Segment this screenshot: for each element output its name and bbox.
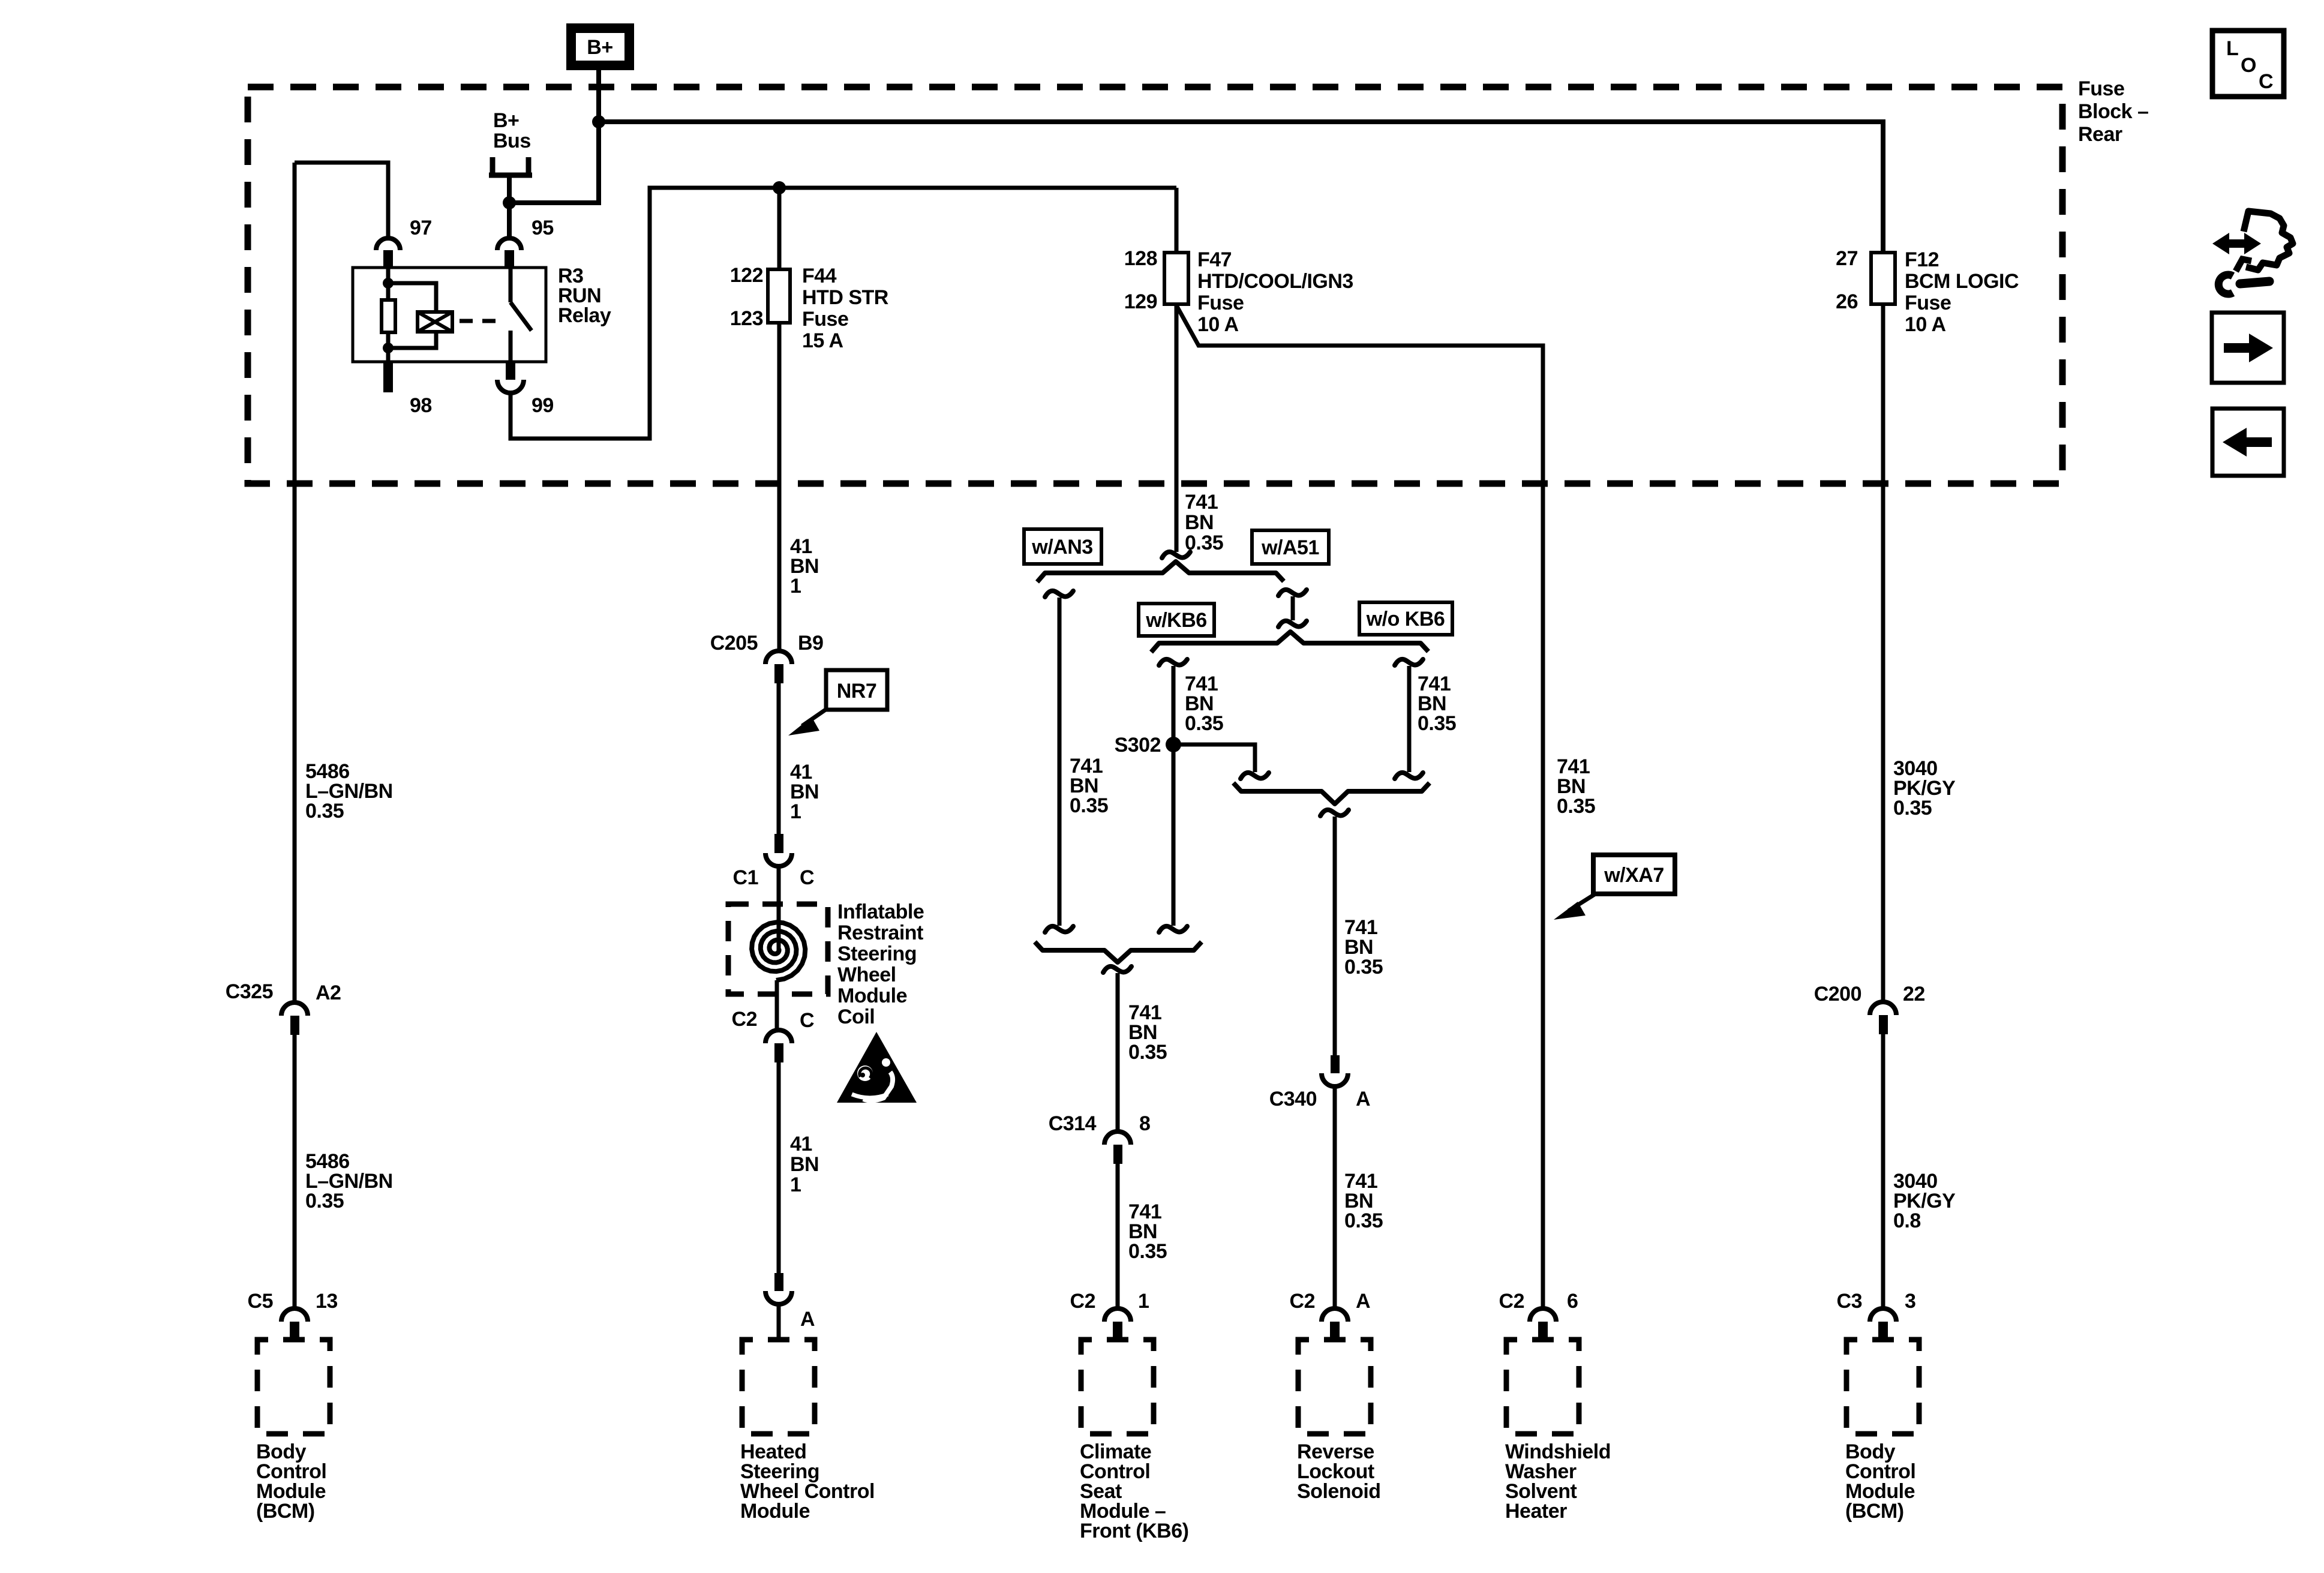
svg-text:0.35: 0.35 [1418,712,1456,735]
svg-text:0.35: 0.35 [1128,1041,1167,1064]
wire label 741 BN 0.35 (above C314) [1128,1001,1167,1064]
svg-text:C2: C2 [1290,1290,1315,1313]
splice mark end of F47 wire [1162,552,1190,558]
dashed actuation link coil to switch [460,319,503,323]
relay switch contact [511,268,532,362]
wire label 5486 L-GN/BN 0.35 (below C325) [305,1150,393,1212]
wire label 41 BN 1 (below NR7) [790,761,819,823]
splice mark bottom of w/AN3 branch [1045,926,1073,932]
icon wrench and arrow (service info) [2212,211,2293,294]
wire label 741 BN 0.35 (w/KB6 branch) [1185,673,1223,735]
resistor in relay [382,300,395,332]
svg-text:NR7: NR7 [837,680,877,703]
wire relay 97 feed (up and left to BCM column) [295,163,388,237]
svg-text:99: 99 [532,394,554,417]
connector C5 pin 13 at left BCM [248,1290,338,1341]
leader arrow w/XA7 to wire [1554,893,1596,920]
svg-text:C205: C205 [710,632,758,655]
svg-text:BN: BN [1185,511,1214,534]
svg-text:BN: BN [790,1153,819,1176]
svg-text:22: 22 [1903,983,1925,1005]
fuse block dashed border [248,87,2062,484]
svg-text:O: O [2241,54,2256,77]
wire label 741 BN 0.35 (w/AN3 branch) [1070,755,1108,817]
inflatable restraint steering wheel module coil dashed box [728,904,828,994]
wire F47 input [1175,188,1179,253]
connector C325 pin A2 [226,980,341,1035]
splice mark top of w/o KB6 branch [1395,659,1423,665]
relay coil (box with X) [418,312,452,332]
wire label 741 BN 0.35 (washer heater feed) [1557,755,1595,818]
svg-text:Coil: Coil [837,1005,875,1028]
option box w/A51 [1252,530,1329,564]
leader arrow NR7 to wire [788,709,827,736]
connector C2 pin 6 at washer solvent heater [1499,1290,1578,1341]
splice mark bottom of w/o KB6 branch [1395,773,1423,779]
svg-text:B+: B+ [493,109,519,132]
svg-text:6: 6 [1567,1290,1578,1313]
svg-text:BCM LOGIC: BCM LOGIC [1905,270,2019,293]
svg-text:C325: C325 [226,980,273,1003]
connector C205 pin B9 [710,632,824,683]
connector C200 pin 22 [1814,983,1925,1034]
module Body Control Module (BCM) right [1845,1340,1919,1523]
svg-text:C200: C200 [1814,983,1861,1005]
svg-text:0.35: 0.35 [1070,794,1108,817]
svg-text:95: 95 [532,217,554,239]
fuse F12 BCM LOGIC 10A [1836,247,2019,336]
svg-text:Wheel: Wheel [837,963,896,986]
wire B+ feed down from B+ box [509,70,599,203]
svg-text:10 A: 10 A [1197,313,1239,336]
svg-text:HTD/COOL/IGN3: HTD/COOL/IGN3 [1197,270,1353,293]
pin 95 terminal of relay [497,217,554,268]
node junction on B+ feed [592,115,605,128]
wire w/A51 stub [1291,596,1295,620]
icon right arrow box [2212,313,2284,383]
svg-text:A: A [1356,1290,1370,1313]
icon LOC legend box [2212,31,2284,97]
wire w/o KB6 branch down [1407,666,1412,772]
svg-text:C: C [800,866,814,889]
svg-text:w/XA7: w/XA7 [1604,864,1664,887]
connector C340 pin A [1269,1055,1370,1110]
svg-text:Relay: Relay [558,304,611,327]
pin 97 terminal of relay [376,217,432,268]
svg-text:122: 122 [730,264,763,287]
svg-text:Fuse: Fuse [802,308,848,331]
svg-text:Bus: Bus [493,130,531,152]
svg-text:C5: C5 [248,1290,273,1313]
wire label 3040 PK/GY 0.35 (above C200) [1893,757,1956,819]
connector C2 pin 1 at climate seat module [1070,1290,1149,1341]
wire C1 into coil module [777,866,781,950]
svg-text:Block –: Block – [2078,100,2148,123]
svg-text:A: A [800,1308,815,1331]
node coil top [383,278,394,289]
wire F47 output down [1175,304,1179,552]
svg-text:0.35: 0.35 [305,800,344,822]
svg-text:Restraint: Restraint [837,921,923,944]
pin 99 terminal of relay [497,361,554,417]
splice mark top of reverse lockout feed [1320,810,1349,816]
wire bus junction down to relay terminal 95 [507,203,512,237]
module Body Control Module (BCM) left [256,1340,330,1523]
brace merge to climate seat module feed [1035,942,1202,962]
relay coil branch wiring [388,268,436,362]
svg-text:C340: C340 [1269,1088,1317,1110]
wire C325 to C5 [293,1035,297,1307]
wire relay 99 output to fuses feed [511,188,1176,439]
label Fuse Block - Rear [2078,77,2148,146]
connector C3 pin 3 at right BCM [1837,1290,1916,1341]
svg-text:HTD STR: HTD STR [802,286,888,309]
splice mark top of w/KB6 branch [1159,659,1187,665]
wire C205 to C1 [777,683,781,834]
wire S302 branch right [1173,745,1255,772]
svg-text:8: 8 [1139,1112,1150,1135]
svg-text:Heater: Heater [1505,1500,1567,1523]
svg-text:13: 13 [316,1290,338,1313]
brace split w/AN3 vs w/A51 [1037,562,1284,582]
svg-text:w/AN3: w/AN3 [1031,536,1092,559]
module Reverse Lockout Solenoid [1297,1340,1381,1503]
wire reverse lockout feed down to C340 [1333,816,1337,1055]
wire label 741 BN 0.35 (below C314) [1128,1200,1167,1263]
svg-text:w/A51: w/A51 [1261,536,1319,559]
svg-text:(BCM): (BCM) [256,1500,315,1523]
option box w/o KB6 [1359,602,1452,635]
splice mark bottom of w/A51 stub [1278,621,1307,627]
label Inflatable Restraint Steering Wheel Module Coil [837,900,924,1028]
wire F47 branch to washer heater column [1176,305,1543,1308]
node splice S302 [1115,734,1181,757]
svg-text:Steering: Steering [837,942,917,965]
wire label 41 BN 1 (above C205) [790,535,819,598]
icon airbag warning triangle [837,1032,917,1103]
svg-text:0.35: 0.35 [1893,797,1932,819]
svg-text:123: 123 [730,307,763,330]
wire C200 to C3 [1881,1034,1885,1307]
wire label 741 BN 0.35 (w/o KB6 branch) [1418,673,1456,735]
svg-text:0.8: 0.8 [1893,1209,1921,1232]
svg-text:C3: C3 [1837,1290,1862,1313]
option box w/XA7 [1593,855,1675,894]
connector pin A at heated steering wheel module [765,1273,815,1340]
svg-text:129: 129 [1124,290,1157,313]
pin 98 stub terminal [383,361,432,417]
svg-text:A: A [1356,1088,1370,1110]
svg-text:C2: C2 [1499,1290,1524,1313]
module Climate Control Seat Module Front (KB6) [1080,1340,1188,1542]
option box w/AN3 [1024,529,1101,564]
wire climate feed down to C314 [1116,973,1120,1131]
svg-text:Solenoid: Solenoid [1297,1480,1381,1503]
wire C340 to C2 reverse [1333,1086,1337,1307]
svg-text:0.35: 0.35 [1128,1240,1167,1263]
svg-text:B+: B+ [587,36,612,59]
splice mark top of w/AN3 branch [1045,591,1073,597]
power symbol B+ [571,28,629,65]
wire label 741 BN 0.35 (F47 output) [1185,491,1223,554]
splice mark top of w/A51 stub [1278,590,1307,596]
wire label 741 BN 0.35 (below C340) [1344,1170,1383,1232]
splice mark bottom of S302 branch [1241,773,1269,779]
svg-text:0.35: 0.35 [1344,1209,1383,1232]
svg-text:B9: B9 [798,632,823,655]
svg-text:1: 1 [790,575,801,598]
svg-text:0.35: 0.35 [305,1190,344,1212]
wire label 41 BN 1 (above heated module) [790,1133,819,1196]
wire F44 output down [777,323,782,651]
bus bar B+ Bus symbol [489,109,532,203]
wire label 741 BN 0.35 (above C340) [1344,916,1383,978]
svg-text:98: 98 [410,394,432,417]
relay R3 RUN Relay [353,265,611,362]
svg-text:S302: S302 [1115,734,1161,757]
svg-text:A2: A2 [316,981,341,1004]
brace split w/KB6 vs w/o KB6 [1151,632,1428,652]
svg-text:F47: F47 [1197,248,1232,271]
svg-text:Fuse: Fuse [1905,292,1951,314]
option box NR7 [826,670,887,710]
svg-text:C: C [800,1009,814,1032]
connector C314 pin 8 [1049,1112,1151,1164]
svg-text:26: 26 [1836,290,1858,313]
svg-text:C1: C1 [733,866,758,889]
svg-text:0.35: 0.35 [1344,956,1383,978]
svg-text:Module: Module [740,1500,810,1523]
svg-text:F44: F44 [802,265,837,287]
splice mark top of climate feed [1103,966,1131,972]
svg-text:C314: C314 [1049,1112,1097,1135]
splice mark bottom of w/KB6 branch [1159,926,1187,932]
svg-text:0.35: 0.35 [1557,795,1595,818]
node coil bottom [383,343,394,353]
coil spiral symbol [752,922,805,980]
svg-text:10 A: 10 A [1905,313,1946,336]
node junction at F44 branch [773,181,786,194]
svg-text:41: 41 [790,1133,812,1155]
svg-text:L: L [2226,37,2238,60]
svg-text:F12: F12 [1905,248,1939,271]
wire label 5486 L-GN/BN 0.35 (above C325) [305,760,393,822]
svg-text:C2: C2 [732,1008,757,1031]
svg-text:0.35: 0.35 [1185,712,1223,735]
svg-text:(BCM): (BCM) [1845,1500,1904,1523]
connector C1 pin C (coil input) [733,834,815,889]
svg-text:Module: Module [837,984,907,1007]
connector C2 pin C (coil output) [732,1008,815,1062]
svg-text:1: 1 [1138,1290,1149,1313]
svg-text:Fuse: Fuse [1197,292,1244,314]
wire F44 input [777,188,782,269]
module Heated Steering Wheel Control Module [740,1340,875,1523]
fuse F47 HTD/COOL/IGN3 10A [1124,247,1353,336]
svg-text:1: 1 [790,800,801,823]
wire left BCM column down [293,163,297,1002]
svg-text:1: 1 [790,1173,801,1196]
svg-text:Rear: Rear [2078,123,2122,146]
wire coil output to C2 [775,980,779,1029]
svg-text:27: 27 [1836,247,1858,270]
svg-text:15 A: 15 A [802,329,843,352]
wire C2 down to heated module [777,1062,781,1273]
svg-text:C2: C2 [1070,1290,1095,1313]
connector C2 pin A at reverse lockout solenoid [1290,1290,1371,1341]
svg-text:C: C [2259,70,2273,93]
wire w/KB6 branch down [1172,666,1176,926]
svg-text:97: 97 [410,217,432,239]
wire C314 to C2 climate [1116,1164,1120,1307]
wire w/AN3 branch down [1058,598,1062,926]
svg-text:Inflatable: Inflatable [837,900,924,923]
svg-text:3: 3 [1905,1290,1915,1313]
wire F12 output down [1881,304,1885,1002]
svg-text:Front (KB6): Front (KB6) [1080,1520,1188,1542]
wire label 3040 PK/GY 0.8 (below C200) [1893,1170,1956,1232]
svg-text:741: 741 [1185,491,1218,514]
wire main feed to F12 (top horizontal) [599,122,1883,253]
option box w/KB6 [1139,604,1214,636]
fuse F44 HTD STR 15A [730,264,888,352]
svg-text:Fuse: Fuse [2078,77,2124,100]
svg-text:w/o KB6: w/o KB6 [1366,608,1445,631]
node junction at B+ bus [503,196,516,209]
brace merge to reverse lockout feed [1233,783,1430,804]
icon left arrow box [2212,409,2284,476]
module Windshield Washer Solvent Heater [1505,1340,1611,1523]
svg-text:w/KB6: w/KB6 [1145,609,1206,632]
svg-text:128: 128 [1124,247,1157,270]
